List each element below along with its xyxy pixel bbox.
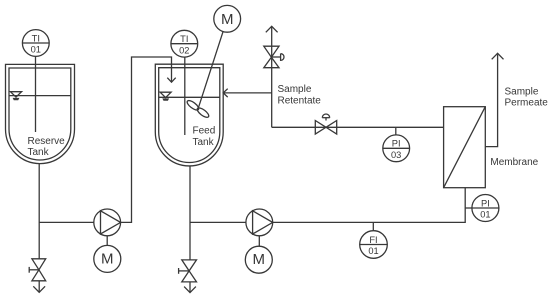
valve V1 xyxy=(29,259,46,281)
svg-text:Sample: Sample xyxy=(278,84,312,95)
svg-text:Membrane: Membrane xyxy=(490,157,538,168)
wire P2 to motor M2 xyxy=(258,236,260,247)
svg-text:Reserve: Reserve xyxy=(28,136,66,147)
label Sample Permeate xyxy=(505,87,549,109)
motor M2 xyxy=(245,246,272,273)
level symbol T1 xyxy=(10,92,21,101)
svg-text:M: M xyxy=(101,250,114,267)
pump P2 xyxy=(246,209,273,236)
svg-text:01: 01 xyxy=(480,210,490,220)
label Reserve Tank xyxy=(28,136,66,158)
valve V2 xyxy=(179,260,197,282)
label Feed Tank xyxy=(193,125,216,148)
arrow feed inlet xyxy=(167,78,175,83)
svg-text:Retentate: Retentate xyxy=(278,96,322,107)
wire permeate xyxy=(485,55,497,147)
wire T1 to pump P1 xyxy=(39,221,94,223)
wire feed tank outlet xyxy=(189,166,191,260)
tank T1 Reserve inner wall xyxy=(9,68,71,160)
tank T2 Feed inner wall xyxy=(159,68,220,163)
wire main line P2 to membrane xyxy=(273,188,466,223)
label Sample Retentate xyxy=(278,84,322,107)
svg-text:01: 01 xyxy=(31,45,41,55)
svg-text:03: 03 xyxy=(391,150,401,160)
arrow permeate up xyxy=(492,53,504,59)
svg-text:TI: TI xyxy=(32,33,40,43)
svg-text:M: M xyxy=(253,251,266,268)
wire retentate return into tank xyxy=(223,92,272,94)
tank T1 Reserve outer wall xyxy=(6,64,75,163)
level symbol T2 xyxy=(160,92,171,101)
wire TI02 dip tube xyxy=(184,57,186,135)
wire P1 outlet to feed tank inlet xyxy=(121,57,172,222)
svg-text:TI: TI xyxy=(180,34,188,44)
svg-text:PI: PI xyxy=(481,198,490,208)
svg-text:01: 01 xyxy=(368,246,378,256)
svg-text:Sample: Sample xyxy=(505,87,539,98)
pump P1 xyxy=(94,209,121,236)
svg-text:Feed: Feed xyxy=(193,125,216,136)
wire reserve tank outlet xyxy=(38,164,40,259)
motor M3 stirrer xyxy=(214,5,241,32)
instrument PI 03 xyxy=(383,127,410,161)
svg-text:M: M xyxy=(221,11,234,28)
svg-text:Tank: Tank xyxy=(28,147,50,158)
level line T1 xyxy=(9,95,71,97)
instrument TI 01 xyxy=(22,30,49,57)
wire retentate line to membrane xyxy=(272,126,444,128)
svg-text:Permeate: Permeate xyxy=(505,97,549,108)
wire sample riser xyxy=(271,46,273,127)
tank T2 Feed outer wall xyxy=(155,64,223,166)
wire T2 to pump P2 xyxy=(190,221,246,223)
svg-text:FI: FI xyxy=(369,235,377,245)
sample arrow up xyxy=(266,26,278,46)
motor M1 xyxy=(94,245,121,272)
wire P1 to motor M1 xyxy=(106,236,108,245)
valve V3 sampling xyxy=(264,46,284,67)
valve V4 diaphragm xyxy=(315,114,336,134)
svg-text:PI: PI xyxy=(392,139,401,149)
membrane module xyxy=(444,107,486,188)
svg-text:02: 02 xyxy=(179,45,189,55)
instrument PI 01 xyxy=(465,195,499,222)
svg-text:Tank: Tank xyxy=(193,137,215,148)
drain arrow V1 xyxy=(33,281,45,293)
stirrer shaft xyxy=(198,31,223,108)
drain arrow V2 xyxy=(184,282,196,293)
instrument FI 01 xyxy=(360,222,388,258)
wire TI01 dip tube xyxy=(35,56,37,132)
impeller xyxy=(186,99,210,119)
level line T2 xyxy=(159,96,220,98)
instrument TI 02 xyxy=(171,30,198,57)
arrow into feed tank xyxy=(223,89,228,97)
